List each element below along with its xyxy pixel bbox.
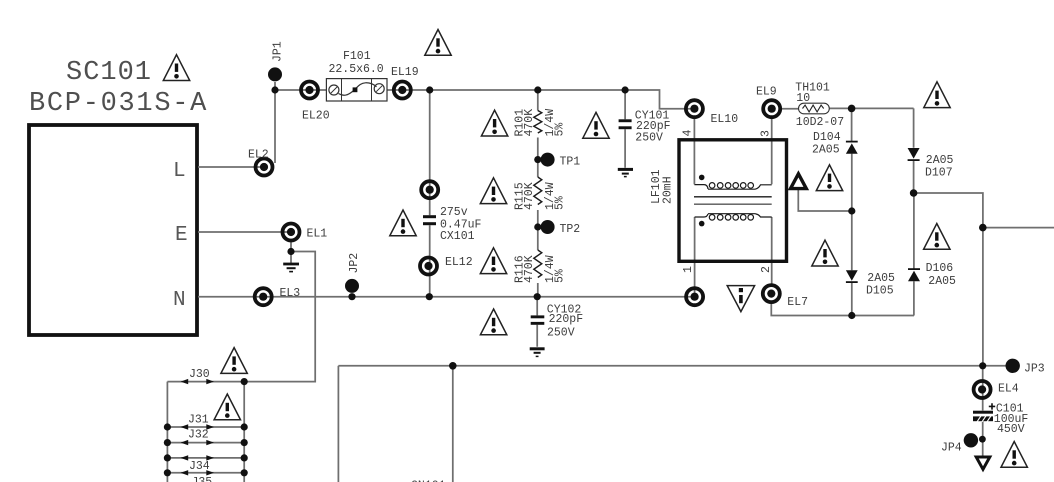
warning triangle above EL19 <box>425 30 451 56</box>
wire D107 vertical <box>913 108 915 193</box>
jumper JP3 <box>1006 359 1020 373</box>
wire EL1 to earth and to J30 block <box>244 240 315 382</box>
diode D106 <box>908 269 920 281</box>
svg-text:250V: 250V <box>635 132 663 145</box>
wire right junction to edge <box>983 227 1054 229</box>
junction EL19 right <box>426 86 433 93</box>
junction delta line <box>848 207 855 214</box>
svg-text:470K: 470K <box>523 182 536 210</box>
junction J30 right <box>241 378 248 385</box>
wire EL9 to TH101 <box>780 108 799 110</box>
svg-text:EL4: EL4 <box>998 383 1019 396</box>
wire CX101 branch vertical <box>429 90 431 297</box>
capacitor CX101 <box>423 215 436 225</box>
diode D104 <box>846 142 858 154</box>
wire R-chain leads <box>537 90 539 297</box>
junction right link <box>979 224 987 232</box>
node EL1 <box>283 224 300 241</box>
diode D107 <box>908 148 920 160</box>
diode D105 <box>846 270 858 282</box>
wire J34 row <box>167 472 244 474</box>
wire rail mid vertical <box>452 366 454 482</box>
svg-text:250V: 250V <box>547 327 575 340</box>
svg-text:EL10: EL10 <box>711 113 739 126</box>
wire fuse to EL19 <box>387 89 402 91</box>
capacitor C101 polarized <box>973 403 995 422</box>
node via on CX101 branch <box>421 181 438 198</box>
svg-text:EL19: EL19 <box>391 66 419 79</box>
arrows J34 <box>181 470 215 475</box>
junction rail right <box>979 362 986 369</box>
svg-text:J31: J31 <box>188 414 209 427</box>
wire JP1 junction to EL20 <box>275 82 310 90</box>
wire transformer pin2 <box>771 217 773 285</box>
wire transformer pin3 <box>771 117 773 184</box>
junction R-chain top <box>534 86 541 93</box>
warning triangle above D107 <box>924 82 950 108</box>
arrows J33 <box>181 455 215 460</box>
svg-text:22.5x6.0: 22.5x6.0 <box>329 63 384 76</box>
capacitor CY101 <box>619 119 632 129</box>
text R116 value <box>514 255 567 283</box>
svg-text:2A05: 2A05 <box>812 144 840 157</box>
svg-text:J34: J34 <box>189 460 210 473</box>
junction JP1 stem <box>271 86 278 93</box>
node EL10 <box>686 100 703 117</box>
wire transformer pin1 <box>694 217 696 297</box>
ground under EL1 <box>283 264 299 272</box>
svg-text:J35: J35 <box>192 476 213 482</box>
warning triangle near J30 <box>221 348 247 374</box>
svg-text:JP2: JP2 <box>348 253 361 274</box>
junction TP2 <box>534 223 541 230</box>
junction D107 bottom <box>910 189 918 197</box>
svg-text:L: L <box>173 160 186 183</box>
node EL20 <box>301 82 318 99</box>
junction J33 ends <box>164 454 248 461</box>
junction J32 ends <box>164 439 248 446</box>
junction EL1 stem <box>287 248 294 255</box>
svg-text:2A05: 2A05 <box>926 154 954 167</box>
svg-text:EL2: EL2 <box>248 149 269 162</box>
wire J31 row <box>167 426 244 428</box>
warning triangle left of CX101 <box>390 210 416 236</box>
inverted info triangle near pin2 <box>727 286 754 312</box>
warning triangle left of R116 <box>480 248 506 274</box>
transformer core lines <box>694 197 772 204</box>
svg-text:1: 1 <box>682 266 695 273</box>
ground triangle below JP4 <box>976 457 990 469</box>
fuse F101 body <box>326 79 387 101</box>
svg-text:275v: 275v <box>440 206 468 219</box>
junction TP1 <box>534 156 541 163</box>
svg-text:D107: D107 <box>925 167 953 180</box>
thermistor TH101 <box>799 103 830 114</box>
svg-text:470K: 470K <box>523 255 536 283</box>
node EL19 <box>394 82 411 99</box>
arrows J30 <box>181 379 215 384</box>
svg-text:2: 2 <box>760 266 773 273</box>
wire L terminal to EL2 <box>198 166 264 168</box>
junction TH101 right <box>848 105 856 113</box>
wire CY102 branch <box>536 297 538 347</box>
node EL7 <box>763 285 780 302</box>
junction J34 ends <box>164 469 248 476</box>
junction CY101 top <box>622 86 629 93</box>
svg-text:SC101: SC101 <box>66 58 152 88</box>
svg-text:2A05: 2A05 <box>928 275 956 288</box>
ground under CY102 <box>530 349 545 357</box>
node EL12 <box>420 258 437 275</box>
wire rail left vertical <box>337 366 339 482</box>
svg-text:EL12: EL12 <box>445 256 473 269</box>
svg-text:N: N <box>173 289 186 312</box>
junction CY102 rail <box>534 293 541 300</box>
transformer top phase dot <box>699 175 705 181</box>
wire D104 branch <box>851 108 853 315</box>
svg-text:JP3: JP3 <box>1024 363 1045 376</box>
connector SC101 body <box>29 125 197 335</box>
arrows J32 <box>181 440 215 445</box>
svg-text:EL7: EL7 <box>787 296 808 309</box>
warning triangle left of R115 <box>480 178 506 204</box>
svg-text:E: E <box>175 224 188 247</box>
svg-text:5%: 5% <box>554 196 567 210</box>
svg-text:EL1: EL1 <box>307 228 328 241</box>
node EL4 <box>974 381 991 398</box>
wire J32 row <box>167 442 244 444</box>
arrows J31 <box>181 424 215 429</box>
svg-text:20mH: 20mH <box>662 176 675 204</box>
svg-text:4: 4 <box>682 130 695 137</box>
warning triangle right of R101 <box>583 112 609 138</box>
transformer top winding <box>694 183 771 190</box>
resistor R101 <box>534 111 542 134</box>
svg-text:J32: J32 <box>188 429 209 442</box>
jumper JP2 <box>345 279 359 293</box>
jumper JP1 <box>268 67 282 81</box>
wire J30 row <box>167 381 244 383</box>
wire TH101 to corner D107 <box>829 107 913 109</box>
warning triangle near J31 <box>214 394 240 420</box>
svg-text:EL9: EL9 <box>756 86 777 99</box>
svg-text:J30: J30 <box>189 368 210 381</box>
svg-text:2A05: 2A05 <box>867 272 895 285</box>
wire delta to D104 line <box>798 190 852 212</box>
svg-text:CX101: CX101 <box>440 230 475 243</box>
resistor R116 <box>534 250 542 278</box>
wire output vertical EL4 C101 <box>982 366 984 456</box>
wire transformer pin4 <box>693 117 695 184</box>
wire EL20 to fuse <box>310 89 326 91</box>
warning triangle title <box>163 55 189 81</box>
transformer LF101 body <box>679 140 787 261</box>
svg-text:TP1: TP1 <box>560 156 581 169</box>
svg-text:EL3: EL3 <box>280 287 301 300</box>
wire D107 junction right corner down <box>914 193 983 228</box>
svg-text:JP1: JP1 <box>272 41 285 62</box>
text R115 value <box>514 182 567 210</box>
node EL3 <box>255 288 272 305</box>
text R101 value <box>514 109 567 137</box>
svg-text:10D2-07: 10D2-07 <box>796 116 844 129</box>
node EL9 <box>763 100 780 117</box>
warning triangle right of delta <box>816 165 842 191</box>
warning triangle above D106 <box>924 224 950 250</box>
wire J right vertical <box>243 382 245 482</box>
svg-text:EL20: EL20 <box>302 110 330 123</box>
svg-text:JP4: JP4 <box>941 442 962 455</box>
wire E terminal to EL1 <box>198 231 291 233</box>
wire EL7 bottom to diode bridge <box>771 303 914 316</box>
svg-text:450V: 450V <box>997 423 1025 436</box>
svg-text:5%: 5% <box>554 269 567 283</box>
test point TP1 <box>541 153 555 167</box>
svg-text:470K: 470K <box>523 109 536 137</box>
junction JP2 stem <box>348 293 355 300</box>
svg-text:TP2: TP2 <box>560 223 581 236</box>
wire top rail EL19 to EL10 <box>402 90 694 109</box>
warning triangle left of R101 <box>481 110 507 136</box>
text LF101 20mH <box>650 169 675 204</box>
svg-text:3: 3 <box>760 130 773 137</box>
wire JP1 down to EL2 <box>274 90 276 163</box>
wire right vertical to rail <box>982 228 984 366</box>
svg-text:F101: F101 <box>343 50 371 63</box>
junction EL12 rail <box>426 293 433 300</box>
wire D106 branch <box>913 193 915 316</box>
wire J33 row <box>167 457 244 459</box>
svg-text:D104: D104 <box>813 131 841 144</box>
junction J31 ends <box>164 423 248 430</box>
wire long bottom rail <box>338 365 1006 367</box>
resistor R115 <box>534 177 542 205</box>
wire CY101 branch <box>624 90 626 168</box>
node pin1 pad <box>686 288 703 305</box>
delta marker near transformer <box>791 174 807 189</box>
node EL2 <box>256 159 273 176</box>
test point TP2 <box>541 220 555 234</box>
warning triangle near JP4 <box>1001 442 1027 468</box>
warning triangle left of CY102 <box>480 309 506 335</box>
svg-text:BCP-031S-A: BCP-031S-A <box>29 89 208 119</box>
svg-text:10: 10 <box>796 92 810 105</box>
transformer bottom winding <box>695 214 772 220</box>
junction rail mid <box>449 362 457 370</box>
capacitor CY102 <box>531 315 545 324</box>
svg-text:220pF: 220pF <box>549 313 584 326</box>
jumper JP4 <box>964 433 978 447</box>
wire N rail from box to transformer pin1 <box>198 296 694 298</box>
junction JP4 <box>979 436 986 443</box>
wire J left vertical <box>166 382 168 482</box>
warning triangle above D105 <box>812 240 838 266</box>
svg-text:D106: D106 <box>926 262 954 275</box>
svg-text:5%: 5% <box>554 123 567 137</box>
svg-text:D105: D105 <box>866 285 894 298</box>
junction D105 bottom <box>848 312 855 319</box>
transformer bottom phase dot <box>699 221 705 227</box>
ground under CY101 <box>618 169 633 176</box>
